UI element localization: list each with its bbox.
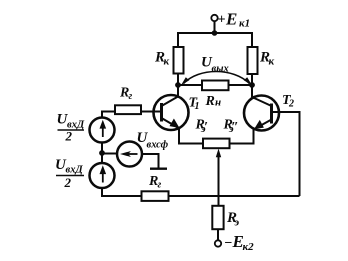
svg-text:г: г xyxy=(129,91,133,102)
wire emitter T1 to potentiometer xyxy=(179,128,203,144)
svg-text:2: 2 xyxy=(65,129,73,144)
svg-text:э: э xyxy=(234,217,240,229)
svg-text:г: г xyxy=(158,180,162,191)
label Uvhd/2 lower xyxy=(55,157,84,190)
wire emitter T2 to potentiometer xyxy=(230,129,254,144)
svg-text:+: + xyxy=(218,13,226,28)
svg-text:к1: к1 xyxy=(239,18,250,30)
wire terminal to top rail xyxy=(214,21,216,33)
wire Rg top to base T1 xyxy=(141,111,162,113)
potentiometer wiper arrow xyxy=(216,149,221,206)
label Uvhd/2 upper xyxy=(57,112,85,144)
resistor Rg bottom xyxy=(142,191,169,201)
svg-text:вхсф: вхсф xyxy=(147,140,169,151)
svg-text:к: к xyxy=(164,56,170,68)
svg-text:к2: к2 xyxy=(243,241,255,253)
wire left Rk to collector node xyxy=(177,74,179,86)
transistor T2 xyxy=(244,96,279,131)
resistor Rg top xyxy=(115,105,141,114)
resistor Rn xyxy=(202,81,229,91)
junction node xyxy=(99,150,105,156)
resistor Rk right xyxy=(248,47,258,74)
svg-text:1: 1 xyxy=(195,101,200,112)
svg-text:2: 2 xyxy=(288,99,294,110)
wire right Rk to collector node xyxy=(251,74,253,85)
source Uvhsf xyxy=(117,142,142,167)
svg-text:вхД: вхД xyxy=(66,165,84,176)
wire upper source to junction xyxy=(101,143,103,164)
svg-text:э: э xyxy=(228,123,234,135)
wire Re to terminal xyxy=(217,229,219,240)
source Uvhd/2 upper xyxy=(90,118,115,143)
svg-text:−: − xyxy=(224,236,232,251)
svg-text:E: E xyxy=(225,10,237,29)
wire top rail to left Rk xyxy=(177,32,179,47)
node collector T1 xyxy=(175,82,181,88)
svg-text:к: к xyxy=(269,56,275,68)
resistor Rk left xyxy=(174,47,184,74)
wire Rn to collector T2 xyxy=(229,84,253,86)
wire lower source to bottom rail xyxy=(101,188,103,197)
svg-text:вых: вых xyxy=(212,64,229,75)
svg-text:R: R xyxy=(205,94,215,109)
wire collector T1 to Rn xyxy=(178,84,202,86)
wire top rail xyxy=(178,32,252,34)
wire source to Rg top xyxy=(102,112,115,118)
ground bar xyxy=(150,167,167,169)
wire bottom rail xyxy=(102,195,300,197)
wire common-mode source to ground xyxy=(142,154,159,168)
wire collector lead T2 xyxy=(251,85,253,98)
source Uvhd/2 lower xyxy=(90,163,115,188)
svg-text:э: э xyxy=(200,123,206,135)
resistor Re xyxy=(212,206,223,229)
node collector T2 xyxy=(249,82,255,88)
terminal +Ek1 xyxy=(211,15,217,21)
transistor T1 xyxy=(154,95,189,130)
svg-text:2: 2 xyxy=(64,175,72,190)
wire collector lead T1 xyxy=(177,85,179,97)
wire base T2 to bottom rail xyxy=(272,112,300,196)
terminal -Ek2 xyxy=(215,240,221,246)
potentiometer R'e R''e xyxy=(203,139,230,149)
svg-text:н: н xyxy=(215,97,221,109)
wire top rail to right Rk xyxy=(251,32,253,47)
Uvyx arc double arrow xyxy=(181,72,252,86)
junction dot top rail xyxy=(212,30,218,36)
wire junction to common-mode source xyxy=(102,153,117,155)
